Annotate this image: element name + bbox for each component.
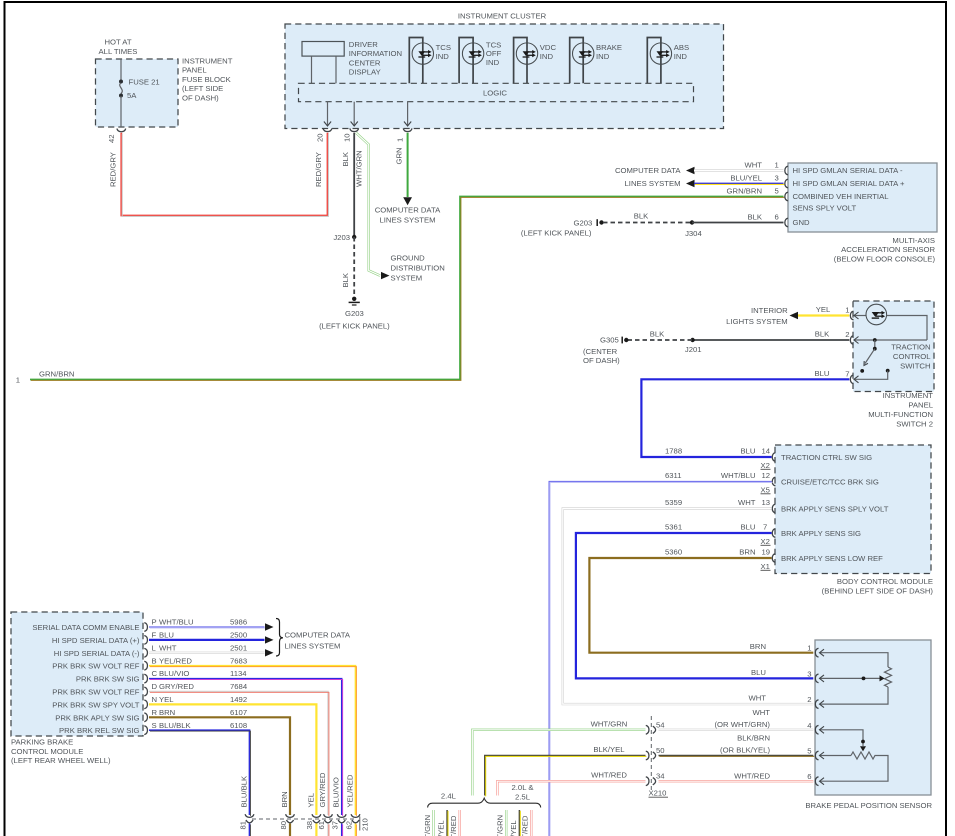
- svg-text:TRACTION: TRACTION: [891, 342, 930, 351]
- svg-text:WHT/GRN: WHT/GRN: [591, 719, 628, 728]
- svg-text:WHT: WHT: [748, 694, 766, 703]
- svg-text:1: 1: [775, 161, 779, 170]
- svg-text:20: 20: [316, 133, 325, 142]
- svg-text:(BEHIND LEFT SIDE OF DASH): (BEHIND LEFT SIDE OF DASH): [822, 586, 934, 595]
- svg-text:RED/GRY: RED/GRY: [109, 152, 118, 187]
- svg-text:INSTRUMENT: INSTRUMENT: [883, 391, 934, 400]
- svg-text:WHT: WHT: [159, 643, 177, 652]
- svg-text:PANEL: PANEL: [182, 66, 207, 75]
- dashed BLK J201 to G305: [628, 339, 693, 341]
- svg-text:IND: IND: [540, 52, 554, 61]
- svg-text:B: B: [152, 656, 157, 665]
- indicator lamp VDC IND: [514, 38, 557, 84]
- svg-text:LINES SYSTEM: LINES SYSTEM: [285, 641, 341, 650]
- sensor internal lower potentiometer: [820, 726, 889, 784]
- svg-text:J201: J201: [685, 345, 702, 354]
- svg-text:3: 3: [775, 174, 779, 183]
- svg-text:LIGHTS SYSTEM: LIGHTS SYSTEM: [726, 317, 788, 326]
- svg-text:3: 3: [807, 669, 811, 678]
- svg-text:PRK BRK SW VOLT REF: PRK BRK SW VOLT REF: [52, 688, 140, 697]
- svg-text:BODY CONTROL MODULE: BODY CONTROL MODULE: [837, 577, 933, 586]
- svg-text:50: 50: [656, 746, 665, 755]
- svg-text:HI SPD SERIAL DATA (+): HI SPD SERIAL DATA (+): [52, 636, 140, 645]
- svg-text:GRN/BRN: GRN/BRN: [39, 370, 74, 379]
- svg-text:6311: 6311: [665, 471, 682, 480]
- svg-text:LOGIC: LOGIC: [483, 88, 507, 97]
- 2.4L wire stubs: [432, 810, 434, 836]
- svg-text:7684: 7684: [230, 682, 248, 691]
- svg-text:TCS: TCS: [486, 40, 501, 49]
- svg-text:2.5L: 2.5L: [515, 792, 531, 801]
- svg-text:IND: IND: [486, 58, 500, 67]
- svg-text:BRK APPLY SENS SIG: BRK APPLY SENS SIG: [781, 529, 861, 538]
- svg-text:INSTRUMENT: INSTRUMENT: [182, 57, 233, 66]
- instrument panel fuse block: [96, 59, 179, 127]
- multi-axis acceleration sensor box: [788, 163, 937, 232]
- wire YEL to interior lights system: [790, 312, 799, 319]
- svg-text:1: 1: [807, 644, 811, 653]
- svg-text:1: 1: [845, 306, 849, 315]
- switch contacts and arm: [854, 338, 927, 379]
- svg-text:YEL: YEL: [816, 305, 831, 314]
- svg-text:GRY/RED: GRY/RED: [318, 772, 327, 807]
- svg-text:SERIAL DATA COMM ENABLE: SERIAL DATA COMM ENABLE: [32, 623, 139, 632]
- svg-text:38: 38: [305, 821, 314, 830]
- 2.0L 2.5L wire stubs: [505, 810, 507, 836]
- svg-text:19: 19: [762, 548, 771, 557]
- svg-text:PRK BRK SW SPY VOLT: PRK BRK SW SPY VOLT: [52, 700, 140, 709]
- svg-text:BLK: BLK: [815, 330, 830, 339]
- svg-text:4: 4: [807, 721, 812, 730]
- wire BLK pin 10 to J203: [353, 133, 355, 237]
- svg-text:BLU: BLU: [751, 668, 766, 677]
- switch illumination LED: [854, 304, 927, 340]
- svg-text:SWITCH 2: SWITCH 2: [896, 419, 933, 428]
- svg-text:(BELOW FLOOR CONSOLE): (BELOW FLOOR CONSOLE): [834, 254, 936, 263]
- svg-text:YEL/RED: YEL/RED: [159, 656, 192, 665]
- svg-text:IND: IND: [674, 52, 688, 61]
- svg-text:X1: X1: [761, 562, 770, 571]
- svg-text:13: 13: [762, 498, 771, 507]
- svg-text:BLK: BLK: [634, 212, 649, 221]
- svg-text:BLU: BLU: [159, 631, 174, 640]
- indicator lamp TCS IND: [409, 38, 451, 84]
- svg-text:7683: 7683: [230, 656, 247, 665]
- svg-text:81: 81: [238, 821, 247, 830]
- svg-text:1788: 1788: [665, 447, 682, 456]
- svg-text:COMPUTER DATA: COMPUTER DATA: [285, 630, 351, 639]
- wire BLU 5361 to sensor pin 3: [576, 533, 813, 678]
- svg-text:HOT AT: HOT AT: [104, 38, 131, 47]
- svg-text:6: 6: [775, 213, 779, 222]
- svg-text:2.0L &: 2.0L &: [512, 783, 534, 792]
- svg-text:DISTRIBUTION: DISTRIBUTION: [391, 263, 445, 272]
- svg-text:BRN: BRN: [159, 708, 175, 717]
- svg-text:S: S: [152, 721, 157, 730]
- wire WHT/GRN pin 10 to ground distribution system: [356, 133, 380, 276]
- svg-text:ACCELERATION SENSOR: ACCELERATION SENSOR: [841, 245, 935, 254]
- svg-text:80: 80: [279, 821, 288, 830]
- svg-text:BLU: BLU: [741, 447, 756, 456]
- svg-text:IND: IND: [596, 52, 610, 61]
- svg-text:PRK BRK REL SW SIG: PRK BRK REL SW SIG: [59, 726, 139, 735]
- svg-text:2500: 2500: [230, 631, 247, 640]
- svg-text:G203: G203: [345, 309, 364, 318]
- svg-text:54: 54: [656, 720, 665, 729]
- svg-text:X5: X5: [761, 485, 770, 494]
- ground G203 left kick panel: [352, 297, 356, 301]
- svg-text:PRK BRK APLY SW SIG: PRK BRK APLY SW SIG: [55, 713, 139, 722]
- wire BLU/YEL to sensor pin 3: [686, 180, 695, 187]
- svg-text:WHT: WHT: [744, 161, 762, 170]
- wire WHT 5359 to sensor pin 2: [563, 509, 814, 705]
- logic box: [299, 83, 694, 101]
- wire WHT/GRN into connector 54: [472, 730, 645, 796]
- svg-text:OFF: OFF: [486, 49, 502, 58]
- svg-text:D: D: [152, 682, 158, 691]
- svg-text:BLK/YEL: BLK/YEL: [509, 820, 518, 836]
- svg-text:CENTER: CENTER: [349, 58, 381, 67]
- svg-text:BLU/BLK: BLU/BLK: [159, 721, 191, 730]
- svg-text:ALL TIMES: ALL TIMES: [99, 47, 138, 56]
- svg-text:WHT/GRN: WHT/GRN: [355, 150, 364, 187]
- svg-text:6: 6: [807, 772, 811, 781]
- svg-text:61: 61: [317, 821, 326, 830]
- svg-text:HI SPD GMLAN SERIAL DATA -: HI SPD GMLAN SERIAL DATA -: [793, 166, 904, 175]
- wire WHT sensor row 4: [659, 729, 814, 731]
- svg-text:PANEL: PANEL: [908, 400, 933, 409]
- svg-text:F: F: [152, 631, 157, 640]
- svg-text:DRIVER: DRIVER: [349, 40, 378, 49]
- svg-text:BRN: BRN: [280, 791, 289, 807]
- svg-text:5: 5: [807, 747, 811, 756]
- svg-text:SENS SPLY VOLT: SENS SPLY VOLT: [793, 204, 857, 213]
- sensor pin cups: [815, 648, 818, 657]
- svg-text:CONTROL: CONTROL: [893, 352, 931, 361]
- svg-text:1134: 1134: [230, 669, 247, 678]
- svg-text:J304: J304: [685, 229, 702, 238]
- wire WHT/RED into connector 34: [497, 781, 645, 795]
- svg-text:OF DASH): OF DASH): [583, 356, 620, 365]
- svg-text:5361: 5361: [665, 523, 682, 532]
- svg-text:210: 210: [361, 818, 370, 831]
- cluster exit pin 10: [353, 102, 355, 126]
- traction control switch box: [853, 301, 934, 392]
- wire GRN pin 1 to computer data lines system: [407, 133, 409, 197]
- svg-text:YEL: YEL: [159, 695, 174, 704]
- svg-text:OF DASH): OF DASH): [182, 93, 219, 102]
- svg-text:C: C: [152, 669, 158, 678]
- svg-text:BLU/VIO: BLU/VIO: [159, 669, 189, 678]
- svg-text:BRK APPLY SENS LOW REF: BRK APPLY SENS LOW REF: [781, 554, 883, 563]
- svg-text:BRAKE: BRAKE: [596, 43, 622, 52]
- svg-text:GROUND: GROUND: [391, 253, 426, 262]
- sensor internal upper potentiometer: [820, 649, 892, 707]
- svg-text:BLK/BRN: BLK/BRN: [737, 734, 770, 743]
- svg-text:1: 1: [16, 376, 20, 385]
- svg-text:BLU: BLU: [815, 369, 830, 378]
- svg-text:HI SPD GMLAN SERIAL DATA +: HI SPD GMLAN SERIAL DATA +: [793, 179, 906, 188]
- svg-text:5360: 5360: [665, 548, 682, 557]
- svg-text:WHT/RED: WHT/RED: [449, 815, 458, 836]
- svg-text:GND: GND: [793, 218, 811, 227]
- wire BLK J304 to sensor pin 6: [692, 222, 784, 224]
- svg-text:SWITCH: SWITCH: [900, 361, 930, 370]
- svg-text:L: L: [152, 643, 157, 652]
- svg-text:INTERIOR: INTERIOR: [751, 306, 788, 315]
- svg-text:IND: IND: [436, 52, 450, 61]
- indicator lamp TCS OFF IND: [459, 38, 501, 84]
- svg-text:6108: 6108: [230, 721, 247, 730]
- wire GRN/BRN long run to sensor pin 5: [30, 197, 784, 380]
- svg-text:CRUISE/ETC/TCC BRK SIG: CRUISE/ETC/TCC BRK SIG: [781, 478, 879, 487]
- cluster exit pin 1: [407, 102, 409, 126]
- wire RED/GRY fuse 42 to cluster pin 20: [121, 133, 327, 216]
- svg-text:VDC: VDC: [540, 43, 557, 52]
- svg-text:G203: G203: [574, 218, 593, 227]
- svg-text:TCS: TCS: [436, 43, 451, 52]
- svg-text:(CENTER: (CENTER: [583, 347, 618, 356]
- svg-text:(LEFT KICK PANEL): (LEFT KICK PANEL): [319, 321, 390, 330]
- svg-text:YEL/RED: YEL/RED: [346, 774, 355, 807]
- instrument cluster box: [285, 24, 724, 129]
- body control module box: [775, 445, 931, 574]
- svg-text:6107: 6107: [230, 708, 247, 717]
- svg-text:BLU/VIO: BLU/VIO: [332, 777, 341, 807]
- svg-text:FUSE BLOCK: FUSE BLOCK: [182, 75, 232, 84]
- wire WHT/BLU 6311 down off page: [549, 482, 772, 836]
- fuse pin 42: [117, 129, 126, 132]
- svg-text:TRACTION CTRL SW SIG: TRACTION CTRL SW SIG: [781, 453, 872, 462]
- svg-text:INFORMATION: INFORMATION: [349, 49, 402, 58]
- svg-text:34: 34: [656, 772, 665, 781]
- svg-text:X210: X210: [649, 789, 667, 798]
- svg-text:BLU/BLK: BLU/BLK: [240, 775, 249, 807]
- svg-text:WHT/GRN: WHT/GRN: [423, 815, 432, 836]
- svg-text:(LEFT REAR WHEEL WELL): (LEFT REAR WHEEL WELL): [11, 756, 111, 765]
- svg-text:WHT/RED: WHT/RED: [591, 771, 627, 780]
- svg-text:12: 12: [762, 471, 771, 480]
- indicator lamp BRAKE IND: [570, 38, 622, 84]
- wire BRN 5360 to sensor pin 1: [589, 558, 813, 653]
- inline connector X210 pins 54 50 34: [650, 716, 652, 790]
- svg-text:BLK: BLK: [341, 151, 350, 166]
- svg-text:CONTROL MODULE: CONTROL MODULE: [11, 747, 83, 756]
- svg-text:G305: G305: [600, 336, 619, 345]
- svg-text:J203: J203: [333, 233, 350, 242]
- svg-text:5: 5: [775, 187, 779, 196]
- svg-text:1: 1: [396, 138, 405, 142]
- svg-text:GRN: GRN: [394, 147, 403, 164]
- driver information center display: [302, 42, 344, 57]
- svg-text:COMBINED VEH INERTIAL: COMBINED VEH INERTIAL: [793, 192, 890, 201]
- engine variant brace 2.4L / 2.0L 2.5L: [428, 798, 541, 807]
- svg-text:YEL: YEL: [306, 792, 315, 807]
- splice J203: [352, 235, 356, 239]
- svg-text:BLU: BLU: [741, 523, 756, 532]
- svg-text:2501: 2501: [230, 643, 247, 652]
- svg-text:14: 14: [762, 447, 771, 456]
- svg-text:FUSE 21: FUSE 21: [129, 78, 160, 87]
- svg-text:(OR WHT/GRN): (OR WHT/GRN): [714, 720, 770, 729]
- svg-text:WHT/BLU: WHT/BLU: [159, 618, 194, 627]
- svg-text:5359: 5359: [665, 498, 682, 507]
- svg-text:WHT: WHT: [738, 498, 756, 507]
- svg-text:7: 7: [845, 369, 849, 378]
- wire WHT to sensor pin 1: [686, 167, 695, 174]
- svg-text:MULTI-AXIS: MULTI-AXIS: [892, 236, 935, 245]
- parking brake control module box: [11, 612, 143, 736]
- splice J304: [690, 220, 694, 224]
- svg-text:10: 10: [342, 133, 351, 142]
- svg-text:BLU/YEL: BLU/YEL: [730, 174, 762, 183]
- wire BLK/YEL into connector 50: [485, 756, 646, 796]
- brace computer data lines system: [276, 619, 283, 657]
- svg-text:2: 2: [845, 330, 849, 339]
- svg-text:PRK BRK SW SIG: PRK BRK SW SIG: [76, 675, 140, 684]
- svg-text:R: R: [152, 708, 158, 717]
- svg-text:X2: X2: [761, 461, 770, 470]
- svg-text:SYSTEM: SYSTEM: [391, 273, 423, 282]
- svg-text:P: P: [152, 618, 157, 627]
- svg-text:WHT: WHT: [752, 708, 770, 717]
- svg-text:5986: 5986: [230, 618, 247, 627]
- svg-text:BLK: BLK: [341, 272, 350, 287]
- svg-text:BLK: BLK: [747, 213, 762, 222]
- svg-text:BRK APPLY SENS SPLY VOLT: BRK APPLY SENS SPLY VOLT: [781, 505, 889, 514]
- svg-text:BRN: BRN: [739, 548, 755, 557]
- dashed BLK J203 to G203: [353, 237, 355, 298]
- svg-text:BLK/YEL: BLK/YEL: [593, 745, 625, 754]
- svg-text:BRAKE PEDAL POSITION SENSOR: BRAKE PEDAL POSITION SENSOR: [805, 801, 932, 810]
- svg-text:2.4L: 2.4L: [441, 792, 457, 801]
- connector label 210 rotated: [359, 817, 361, 831]
- svg-text:X2: X2: [761, 537, 770, 546]
- svg-text:WHT/BLU: WHT/BLU: [721, 471, 756, 480]
- svg-text:PRK BRK SW VOLT REF: PRK BRK SW VOLT REF: [52, 662, 140, 671]
- svg-text:(LEFT KICK PANEL): (LEFT KICK PANEL): [521, 229, 592, 238]
- indicator lamp ABS IND: [647, 38, 689, 84]
- dashed BLK G203 to J304: [603, 222, 692, 224]
- svg-text:N: N: [152, 695, 158, 704]
- splice J201: [690, 338, 694, 342]
- svg-text:ABS: ABS: [674, 43, 689, 52]
- svg-text:PARKING BRAKE: PARKING BRAKE: [11, 738, 73, 747]
- svg-text:(OR BLK/YEL): (OR BLK/YEL): [720, 746, 770, 755]
- dashed connector link line 210: [252, 818, 357, 820]
- brake pedal position sensor box: [815, 640, 931, 795]
- svg-text:RED/GRY: RED/GRY: [314, 152, 323, 187]
- svg-text:2: 2: [807, 695, 811, 704]
- wire BLU switch pin 7 to BCM pin 14: [641, 379, 849, 457]
- svg-text:5A: 5A: [127, 91, 137, 100]
- svg-text:62: 62: [344, 821, 353, 830]
- wire BLK switch pin 2 to J201: [693, 339, 850, 341]
- svg-text:37: 37: [331, 821, 340, 830]
- svg-text:GRN/BRN: GRN/BRN: [727, 187, 762, 196]
- wire BLK/BRN sensor row 5: [659, 755, 814, 757]
- svg-text:7: 7: [763, 523, 767, 532]
- fuse F21 5A: [120, 59, 122, 81]
- svg-text:LINES SYSTEM: LINES SYSTEM: [380, 216, 436, 225]
- svg-text:1492: 1492: [230, 695, 247, 704]
- svg-text:BLK/YEL: BLK/YEL: [437, 820, 446, 836]
- svg-text:42: 42: [107, 134, 116, 143]
- wire WHT/RED sensor row 6: [659, 780, 814, 782]
- svg-text:INSTRUMENT CLUSTER: INSTRUMENT CLUSTER: [458, 11, 547, 20]
- svg-text:BLK: BLK: [650, 330, 665, 339]
- svg-text:WHT/RED: WHT/RED: [734, 771, 770, 780]
- svg-text:GRY/RED: GRY/RED: [159, 682, 194, 691]
- svg-text:(LEFT SIDE: (LEFT SIDE: [182, 84, 223, 93]
- svg-text:DISPLAY: DISPLAY: [349, 68, 381, 77]
- svg-text:COMPUTER DATA: COMPUTER DATA: [375, 206, 441, 215]
- svg-text:LINES SYSTEM: LINES SYSTEM: [625, 179, 681, 188]
- svg-text:WHT/GRN: WHT/GRN: [496, 815, 505, 836]
- svg-text:HI SPD SERIAL DATA (-): HI SPD SERIAL DATA (-): [54, 649, 140, 658]
- svg-text:COMPUTER DATA: COMPUTER DATA: [615, 166, 681, 175]
- svg-text:BRN: BRN: [750, 642, 766, 651]
- cluster exit pin 20: [327, 102, 329, 126]
- svg-text:WHT/RED: WHT/RED: [521, 815, 530, 836]
- svg-text:MULTI-FUNCTION: MULTI-FUNCTION: [868, 410, 933, 419]
